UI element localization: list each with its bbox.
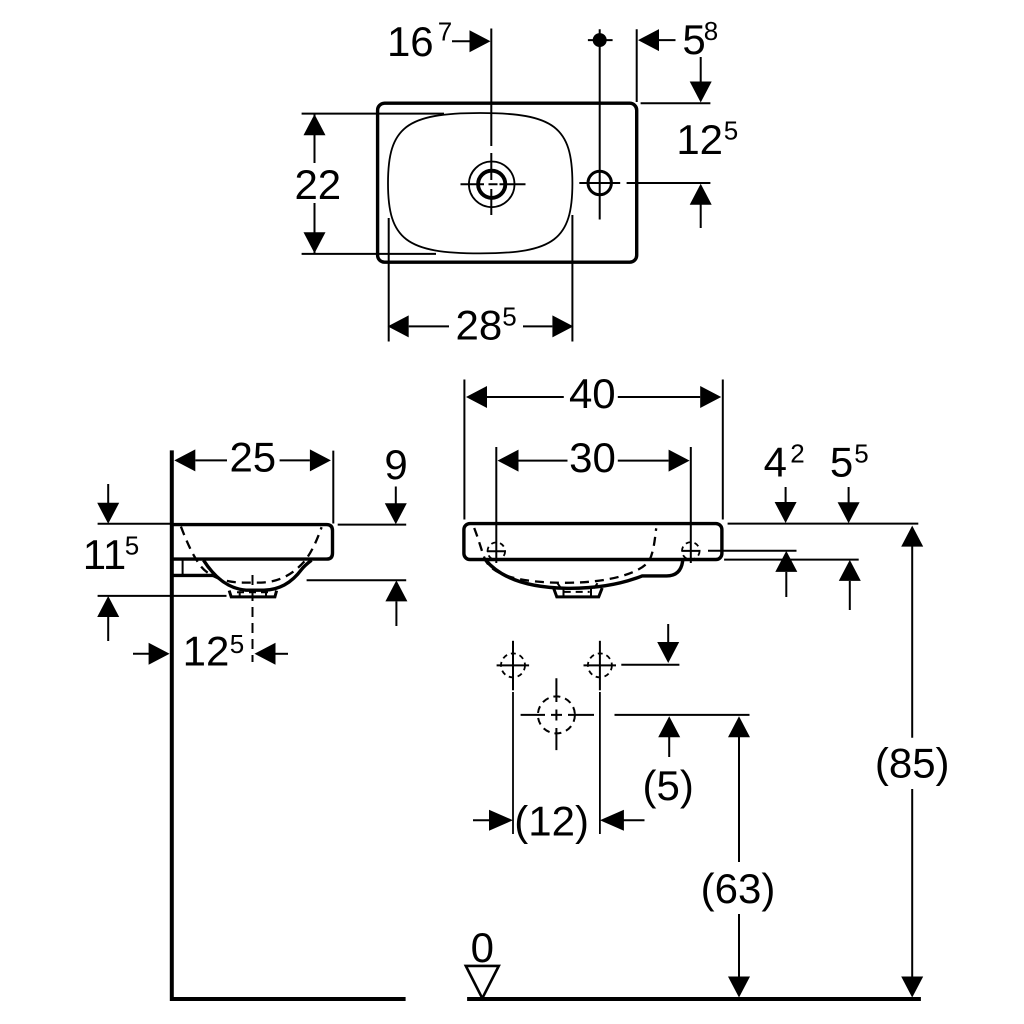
svg-text:(12): (12) xyxy=(514,798,589,845)
svg-text:0: 0 xyxy=(471,924,494,971)
drain trap left tick xyxy=(558,583,562,588)
dot horizontal tick xyxy=(588,39,613,41)
left fixing hole cross vertical xyxy=(512,641,514,691)
dim 9 up arrow xyxy=(385,580,407,601)
dim 40 left arrow xyxy=(466,386,487,408)
drain centerline horizontal xyxy=(461,183,526,185)
floor line right xyxy=(467,997,921,1001)
drain thick circle xyxy=(478,171,505,198)
datum triangle xyxy=(466,966,499,998)
svg-text:(5): (5) xyxy=(643,762,694,809)
reference dot xyxy=(593,33,607,47)
dim (63) down arrow xyxy=(728,977,750,998)
dim 12.5 left-point arrow xyxy=(255,643,276,665)
rim profile xyxy=(170,525,333,560)
dim 12.5 right-point arrow xyxy=(149,643,170,665)
dim 12.5 down arrow xyxy=(690,82,712,103)
left fixing extension line down xyxy=(512,692,514,834)
svg-text:25: 25 xyxy=(229,434,276,481)
drain outer thin circle xyxy=(469,162,515,208)
dim 5.8 tail line xyxy=(659,39,676,41)
dim 25 line right xyxy=(280,459,310,461)
svg-text:5: 5 xyxy=(502,302,516,332)
svg-text:12: 12 xyxy=(676,116,723,163)
dim 25 right arrow xyxy=(310,449,331,471)
dim 40 left extension xyxy=(463,380,465,520)
tap hole circle xyxy=(588,171,611,194)
tap hole centerline vertical xyxy=(599,29,601,219)
svg-text:5: 5 xyxy=(724,116,738,146)
bracket divider line xyxy=(182,560,184,576)
svg-text:8: 8 xyxy=(704,16,718,46)
svg-text:9: 9 xyxy=(384,441,407,488)
dim (85) up arrow xyxy=(901,526,923,547)
dim 30 right extension xyxy=(690,447,692,563)
svg-text:2: 2 xyxy=(790,439,804,469)
dim 9 down arrow shaft xyxy=(395,487,397,505)
dim 22 line upper segment xyxy=(314,114,316,163)
svg-text:4: 4 xyxy=(764,439,787,486)
dim 22 bottom extension line xyxy=(302,253,436,255)
right tap dashed circle xyxy=(682,542,700,560)
dim 12.5 up arrow shaft xyxy=(700,205,702,229)
dim 5.5 down arrow xyxy=(838,502,860,523)
dim 12.5 upper extension line xyxy=(641,102,711,104)
outlet level reference line xyxy=(615,714,750,716)
svg-text:11: 11 xyxy=(83,531,127,578)
dim (5) down arrow xyxy=(657,642,679,663)
dim 30 right arrow xyxy=(669,450,690,472)
dim 28.5 line left segment xyxy=(409,325,449,327)
svg-text:12: 12 xyxy=(183,628,230,675)
dim 16.7 arrow right xyxy=(470,30,491,52)
left tap dashed circle xyxy=(488,542,506,560)
dim 5.5 down arrow shaft xyxy=(848,487,850,503)
drain trap inner steps xyxy=(564,589,592,598)
dim 12.5 right-point arrow tail xyxy=(133,653,150,655)
dim 4.2 down arrow shaft xyxy=(785,487,787,503)
dim 22 top extension line xyxy=(302,113,444,115)
dim 25 right extension xyxy=(332,451,334,524)
svg-text:5: 5 xyxy=(854,439,868,469)
right fixing hole cross horizontal xyxy=(584,664,617,666)
dim 12.5 up arrow xyxy=(690,184,712,205)
dim 5.8 extension line xyxy=(636,29,638,102)
dim (63) line lower xyxy=(738,914,740,977)
svg-text:22: 22 xyxy=(294,161,341,208)
dim (85) line lower xyxy=(911,789,913,977)
left fixing hole cross horizontal xyxy=(497,664,529,666)
tap hole centerline horizontal xyxy=(579,182,620,184)
dim 28.5 line right segment xyxy=(523,325,552,327)
dim 11.5 down arrow xyxy=(97,503,119,524)
dim 28.5 right arrow xyxy=(552,315,573,337)
right fixing hole cross vertical xyxy=(599,641,601,691)
svg-text:(85): (85) xyxy=(875,739,950,786)
dim 40 line left xyxy=(487,396,564,398)
dim 12.5 lower extension line xyxy=(627,182,711,184)
dim (85) down arrow xyxy=(901,977,923,998)
dim 40 right extension xyxy=(722,380,724,520)
svg-text:5: 5 xyxy=(125,531,139,561)
dim 30 line left xyxy=(519,460,568,462)
dim 12.5 down arrow shaft xyxy=(700,57,702,82)
waste outlet dashed circle xyxy=(538,696,575,733)
bowl inner dashed outline xyxy=(474,528,656,583)
dim 22 down arrow xyxy=(304,232,326,253)
bowl inner dashed profile xyxy=(181,527,322,583)
dim 25 left arrow xyxy=(174,449,195,471)
dim 9 down arrow xyxy=(385,503,407,524)
svg-text:30: 30 xyxy=(569,434,616,481)
dim 4.2 down arrow xyxy=(775,502,797,523)
dim 16.7 tail line xyxy=(452,40,471,42)
dim (63) line upper xyxy=(738,737,740,862)
dim 4.2 up arrow shaft xyxy=(785,572,787,597)
dim 22 line lower segment xyxy=(314,203,316,254)
waste outlet centerline vertical xyxy=(555,678,557,750)
svg-text:5: 5 xyxy=(830,439,853,486)
dim (12) left-point arrow xyxy=(600,810,624,831)
dim 30 line right xyxy=(618,460,669,462)
svg-text:16: 16 xyxy=(387,18,434,65)
dim 11.5 down arrow shaft xyxy=(107,484,109,504)
rim top left reference line xyxy=(98,523,170,525)
dim (12) left-point arrow tail xyxy=(623,819,645,821)
dim 11.5 up arrow shaft xyxy=(107,617,109,641)
dim 9 up arrow shaft xyxy=(395,601,397,626)
dim 11.5 up arrow xyxy=(97,596,119,617)
left tap cross horizontal xyxy=(487,550,506,552)
dim (5) up arrow xyxy=(658,716,680,737)
dim 28.5 left arrow xyxy=(388,315,409,337)
bowl outer solid curve xyxy=(485,560,682,589)
dim 28.5 left extension line xyxy=(388,218,390,342)
svg-text:5: 5 xyxy=(682,16,705,63)
fixing level reference line xyxy=(621,664,679,666)
dim 22 up arrow xyxy=(304,114,326,135)
bowl outer solid profile xyxy=(204,560,312,590)
side trap inner steps xyxy=(240,591,266,596)
dim 40 right arrow xyxy=(700,386,721,408)
side trap outline xyxy=(229,591,276,597)
dim (12) right-point arrow tail xyxy=(473,819,490,821)
svg-text:5: 5 xyxy=(230,629,244,659)
side trap dashed line xyxy=(237,591,268,593)
dim 5.5 up arrow xyxy=(839,560,861,581)
svg-text:40: 40 xyxy=(569,370,616,417)
dim 28.5 right extension line xyxy=(571,215,573,342)
right fixing extension line down xyxy=(599,692,601,834)
bowl bottom reference line xyxy=(98,595,227,597)
rim top right reference line xyxy=(338,524,407,526)
dim 30 left arrow xyxy=(498,450,519,472)
dim (85) line upper xyxy=(911,547,913,738)
dim 4.2 up arrow xyxy=(775,551,797,572)
dim 5.8 arrow left xyxy=(638,29,659,51)
tap level reference line xyxy=(708,550,797,552)
right fixing hole dashed circle xyxy=(588,653,612,677)
left fixing hole dashed circle xyxy=(501,653,525,677)
dim 12.5 left-point arrow tail xyxy=(276,653,289,655)
right tap cross horizontal xyxy=(682,550,701,552)
drain trap right tick xyxy=(594,583,598,588)
dim (5) up arrow shaft xyxy=(668,737,670,757)
drain trap outline xyxy=(554,588,603,597)
drain centerline vertical xyxy=(490,29,492,216)
drain dashed centerline xyxy=(252,575,254,662)
svg-text:7: 7 xyxy=(438,17,452,47)
bowl depth reference line xyxy=(307,579,407,581)
svg-text:(63): (63) xyxy=(701,865,776,912)
dim 5.5 up arrow shaft xyxy=(849,581,851,610)
dim 30 left extension xyxy=(495,447,497,563)
bracket bottom ledge xyxy=(170,574,213,577)
dim (5) down arrow shaft xyxy=(667,624,669,643)
drain trap dashed line xyxy=(564,591,590,593)
inner bowl rounded outline xyxy=(388,113,572,253)
outer rim rectangle xyxy=(378,103,637,262)
rim body rectangle xyxy=(464,524,722,560)
dim 25 line left xyxy=(195,459,227,461)
dim 40 line right xyxy=(618,396,700,398)
rim top reference line xyxy=(728,523,919,525)
dim (63) up arrow xyxy=(728,716,750,737)
svg-text:28: 28 xyxy=(456,302,503,349)
dim (12) right-point arrow xyxy=(489,810,513,831)
waste outlet centerline horizontal xyxy=(521,714,594,716)
wall and floor left xyxy=(172,450,406,999)
rim bottom reference line xyxy=(724,559,859,561)
